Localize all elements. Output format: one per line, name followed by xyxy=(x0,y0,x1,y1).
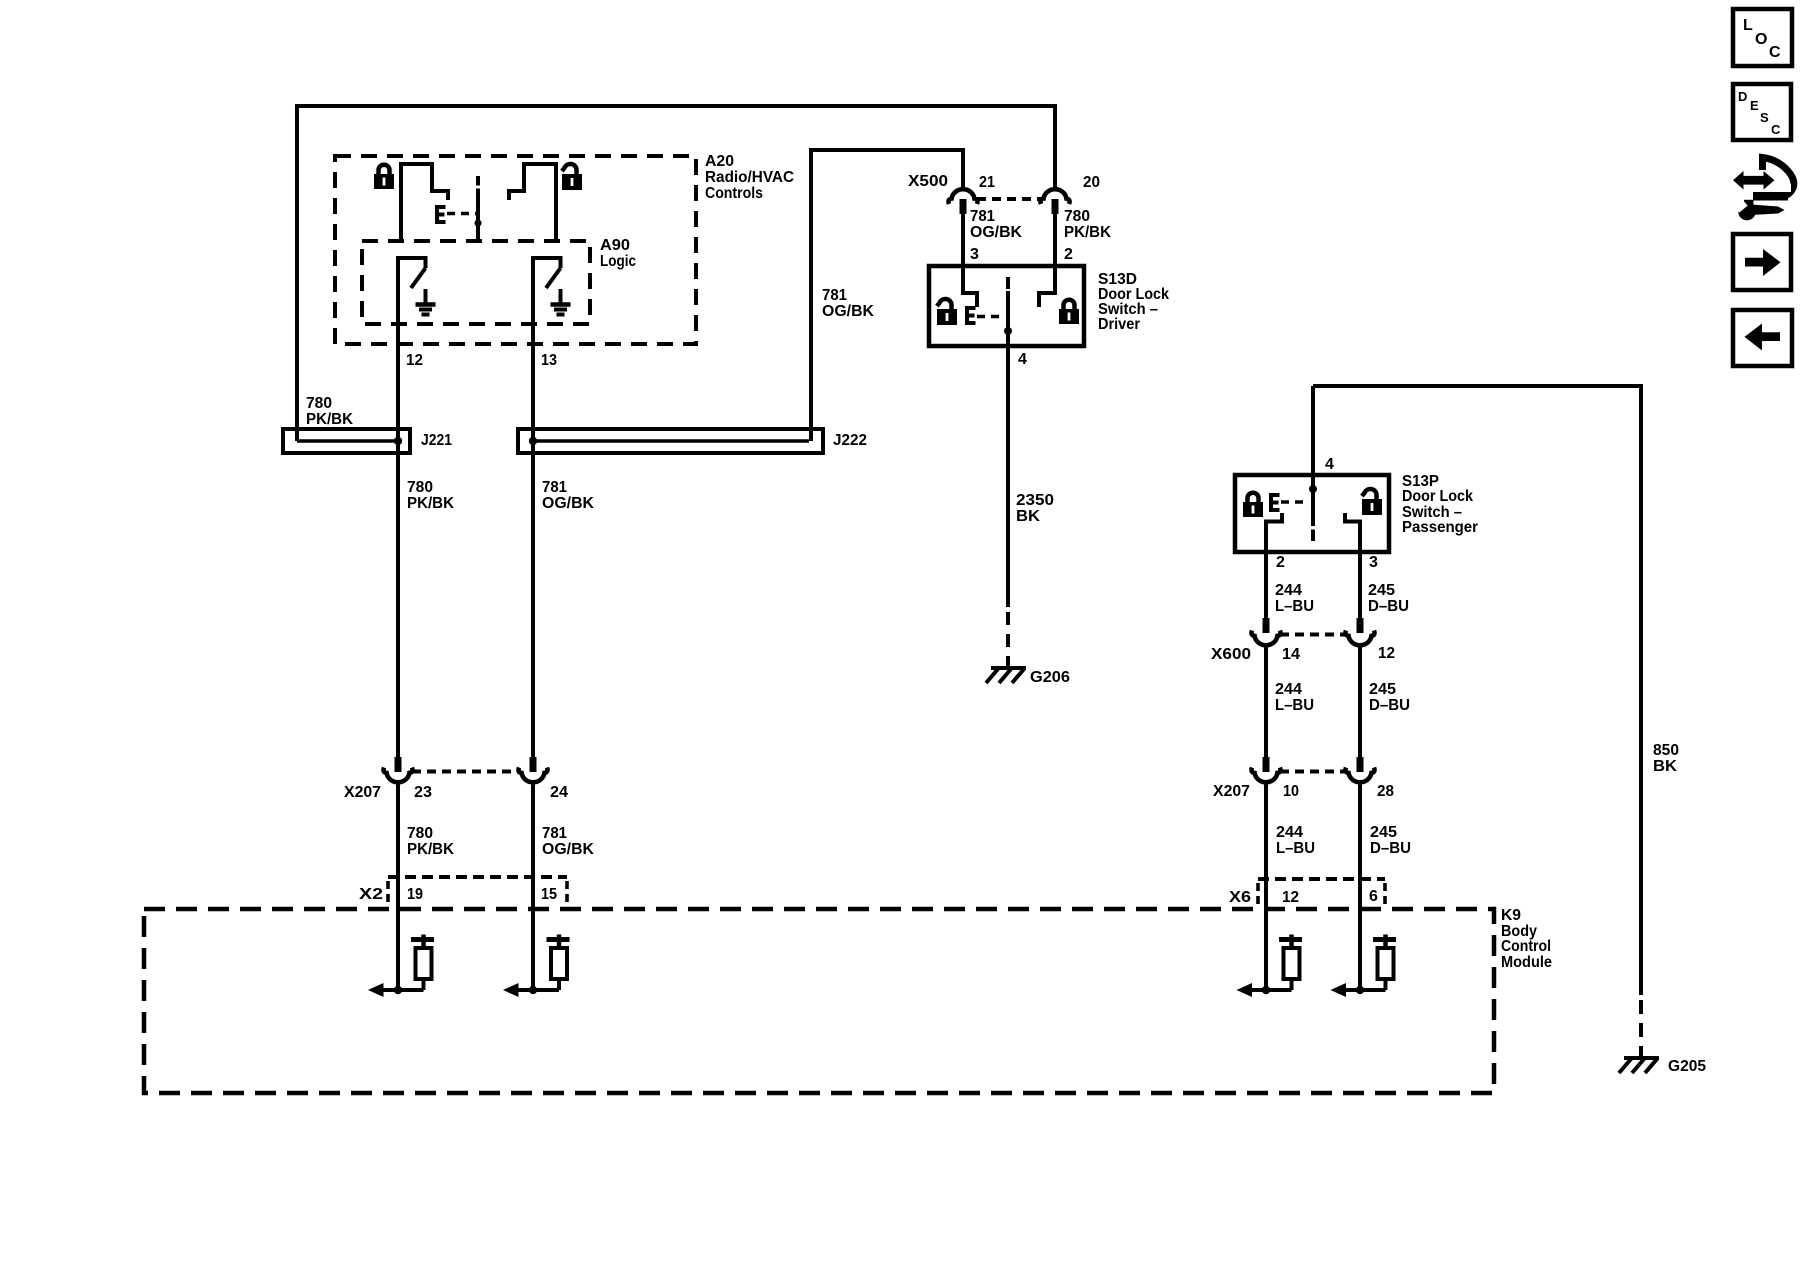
connector X207 cavity 23 xyxy=(383,757,412,782)
switch common link symbol E in S13D xyxy=(967,308,976,323)
svg-text:G206: G206 xyxy=(1030,669,1070,686)
svg-text:24: 24 xyxy=(550,784,568,801)
label wire 245 D-BU (above X600) xyxy=(1368,582,1409,615)
BCM input network for circuit 780 (resistor + signal arrow) xyxy=(368,935,434,998)
svg-text:Controls: Controls xyxy=(705,185,763,202)
svg-text:OG/BK: OG/BK xyxy=(970,224,1022,241)
svg-text:4: 4 xyxy=(1018,351,1027,368)
svg-text:780: 780 xyxy=(407,479,433,496)
svg-text:19: 19 xyxy=(407,886,423,903)
svg-text:12: 12 xyxy=(1282,889,1299,906)
label K9 Body Control Module xyxy=(1501,907,1552,971)
label S13P Door Lock Switch - Passenger xyxy=(1402,473,1478,536)
BCM input network for circuit 244 (resistor + signal arrow) xyxy=(1237,935,1303,998)
switch common link symbol E in S13P xyxy=(1271,495,1280,510)
device box K9 Body Control Module (dashed) xyxy=(144,909,1494,1093)
connector X600 cavity 12 xyxy=(1345,618,1374,645)
svg-text:C: C xyxy=(1771,122,1781,137)
label wire 245 D-BU (below X600) xyxy=(1369,681,1410,714)
wire 780 PK/BK top horizontal rail xyxy=(295,104,1057,108)
pin label 19 xyxy=(407,886,423,903)
wire 781 OG/BK vertical from J222 up to rail xyxy=(809,148,813,441)
connector X6 (dashed) xyxy=(1258,879,1385,907)
wire 2350 BK from S13D pin 4 xyxy=(1006,346,1010,607)
pin label 12 on X600 xyxy=(1378,645,1395,662)
svg-text:21: 21 xyxy=(979,174,995,191)
label J222 xyxy=(833,432,867,449)
label wire 780 PK/BK (below J221) xyxy=(407,479,454,512)
svg-text:PK/BK: PK/BK xyxy=(407,841,454,858)
svg-text:PK/BK: PK/BK xyxy=(407,495,454,512)
BCM input network for circuit 245 (resistor + signal arrow) xyxy=(1331,935,1397,998)
svg-text:X600: X600 xyxy=(1211,646,1251,663)
S13P pin 2 contact xyxy=(1266,513,1282,552)
wire 245 D-BU X207 to BCM xyxy=(1358,784,1362,990)
pin label 10 xyxy=(1283,783,1299,800)
svg-text:PK/BK: PK/BK xyxy=(1064,224,1111,241)
svg-text:J221: J221 xyxy=(421,432,452,449)
wire 781 OG/BK drop to X500 pin 21 xyxy=(961,148,965,189)
label wire 781 OG/BK (below X207) xyxy=(542,825,594,858)
wire 780 PK/BK pin 12 vertical (A90 to X207) xyxy=(396,258,400,758)
svg-text:A90: A90 xyxy=(600,237,630,254)
unlock contact staircase in A20 xyxy=(509,164,556,241)
svg-text:A20: A20 xyxy=(705,153,734,170)
label A90 Logic xyxy=(600,237,636,270)
label wire 780 PK/BK (below X207) xyxy=(407,825,454,858)
connector X2 (dashed) xyxy=(388,877,567,905)
svg-text:Module: Module xyxy=(1501,954,1552,971)
svg-text:Driver: Driver xyxy=(1098,316,1140,333)
wire 780 PK/BK X207 to BCM xyxy=(396,784,400,990)
wire 781 OG/BK X500 to S13D pin 3 xyxy=(961,214,965,268)
svg-text:850: 850 xyxy=(1653,742,1679,759)
connector X207 cavity 10 xyxy=(1251,757,1280,782)
svg-text:G205: G205 xyxy=(1668,1058,1706,1075)
svg-text:J222: J222 xyxy=(833,432,867,449)
icon closed padlock in S13D xyxy=(1059,300,1079,324)
svg-text:780: 780 xyxy=(306,395,332,412)
ground symbol in A90 (left) xyxy=(416,289,436,315)
svg-text:13: 13 xyxy=(541,352,557,369)
pin label 15 xyxy=(541,886,557,903)
svg-text:245: 245 xyxy=(1370,824,1397,841)
ground symbol in A90 (right) xyxy=(551,289,571,315)
pin label 2 on S13D xyxy=(1064,246,1073,263)
svg-text:3: 3 xyxy=(970,246,979,263)
pin label 12 on A20 xyxy=(406,352,423,369)
svg-text:OG/BK: OG/BK xyxy=(822,303,874,320)
S13P wiper solid from pin 4 xyxy=(1311,386,1315,526)
svg-text:245: 245 xyxy=(1368,582,1395,599)
svg-text:BK: BK xyxy=(1016,508,1040,525)
svg-text:D–BU: D–BU xyxy=(1368,598,1409,615)
label S13D Door Lock Switch - Driver xyxy=(1098,271,1169,333)
svg-text:Control: Control xyxy=(1501,938,1551,955)
connector X207 cavity 28 xyxy=(1345,757,1374,782)
S13D wiper pivot dot xyxy=(1004,327,1012,335)
wire 781 OG/BK pin 13 vertical (A90 to X207) xyxy=(531,258,535,758)
label A20 Radio/HVAC Controls xyxy=(705,153,794,202)
label X500 xyxy=(908,173,948,190)
svg-text:X207: X207 xyxy=(1213,783,1250,800)
svg-text:244: 244 xyxy=(1275,582,1302,599)
wire 781 OG/BK X207 to BCM xyxy=(531,784,535,990)
connector X207 dashed link (right) xyxy=(1280,770,1347,774)
svg-text:X207: X207 xyxy=(344,784,381,801)
A90 left switch contact xyxy=(396,258,426,268)
wiper pivot dot in A20 xyxy=(474,219,481,226)
label wire 781 OG/BK (below J222) xyxy=(542,479,594,512)
label wire 780 PK/BK (below X500-20) xyxy=(1064,208,1111,241)
label J221 xyxy=(421,432,452,449)
ground G206 xyxy=(986,668,1026,683)
device box A90 Logic (dashed) xyxy=(362,241,590,324)
pin label 3 on S13P xyxy=(1369,554,1378,571)
pin label 2 on S13P xyxy=(1276,554,1285,571)
svg-text:3: 3 xyxy=(1369,554,1378,571)
pin label 23 xyxy=(414,784,432,801)
connector X500 cavity 20 xyxy=(1040,189,1069,214)
svg-text:2350: 2350 xyxy=(1016,492,1054,509)
svg-text:15: 15 xyxy=(541,886,557,903)
mechanical link dashes in A20 xyxy=(447,212,476,216)
svg-text:Logic: Logic xyxy=(600,253,636,270)
label wire 244 L-BU (below X207) xyxy=(1276,824,1315,857)
svg-text:D: D xyxy=(1738,89,1747,104)
pin label 20 xyxy=(1083,174,1100,191)
svg-text:12: 12 xyxy=(1378,645,1395,662)
device box A20 Radio/HVAC Controls (dashed) xyxy=(335,156,696,344)
svg-text:C: C xyxy=(1769,44,1781,61)
label wire 244 L-BU (above X600) xyxy=(1275,582,1314,615)
S13D wiper (dashed top) xyxy=(1006,277,1010,289)
svg-text:X6: X6 xyxy=(1229,889,1251,906)
icon open padlock in S13P xyxy=(1362,489,1382,515)
connector X500 cavity 21 xyxy=(948,189,977,214)
mechanical link dashes in S13P xyxy=(1281,500,1308,504)
label wire 244 L-BU (below X600) xyxy=(1275,681,1314,714)
svg-text:244: 244 xyxy=(1276,824,1303,841)
svg-text:L: L xyxy=(1743,17,1753,34)
svg-text:6: 6 xyxy=(1369,888,1378,905)
splice J222 xyxy=(518,429,823,453)
svg-text:BK: BK xyxy=(1653,758,1677,775)
svg-text:781: 781 xyxy=(542,479,567,496)
connector X207 cavity 24 xyxy=(518,757,547,782)
svg-text:2: 2 xyxy=(1064,246,1073,263)
svg-text:12: 12 xyxy=(406,352,423,369)
A90 left switch blade xyxy=(411,268,426,288)
svg-text:L–BU: L–BU xyxy=(1275,598,1314,615)
icon button LOC xyxy=(1733,9,1792,66)
svg-text:S: S xyxy=(1760,110,1769,125)
svg-text:14: 14 xyxy=(1282,646,1300,663)
icon closed padlock (lock) in A20 xyxy=(374,165,394,189)
label X6 xyxy=(1229,889,1251,906)
svg-text:K9: K9 xyxy=(1501,907,1521,924)
svg-text:X2: X2 xyxy=(359,886,383,903)
label X207 (left) xyxy=(344,784,381,801)
device box S13D xyxy=(929,266,1084,346)
svg-text:780: 780 xyxy=(407,825,433,842)
wire 850 BK horizontal from S13P pin 4 xyxy=(1313,384,1643,388)
switch common link symbol E in A20 xyxy=(437,207,446,222)
svg-text:20: 20 xyxy=(1083,174,1100,191)
wire 850 BK dashed ground lead xyxy=(1639,1000,1643,1056)
svg-text:780: 780 xyxy=(1064,208,1090,225)
icon open padlock in S13D xyxy=(937,299,957,325)
svg-text:28: 28 xyxy=(1377,783,1394,800)
S13P wiper dashed tip xyxy=(1311,530,1315,542)
label wire 781 OG/BK (left rail) xyxy=(822,287,874,320)
svg-text:O: O xyxy=(1755,31,1767,48)
svg-text:L–BU: L–BU xyxy=(1276,840,1315,857)
icon button DESC xyxy=(1733,84,1791,140)
S13D wiper solid to pin 4 xyxy=(1006,291,1010,348)
connector X600 cavity 14 xyxy=(1251,618,1280,645)
label X2 xyxy=(359,886,383,903)
svg-text:OG/BK: OG/BK xyxy=(542,495,594,512)
pin label 24 xyxy=(550,784,568,801)
icon open padlock (unlock) in A20 xyxy=(562,164,582,190)
label X600 xyxy=(1211,646,1251,663)
svg-text:245: 245 xyxy=(1369,681,1396,698)
icon closed padlock in S13P xyxy=(1243,493,1263,517)
svg-text:781: 781 xyxy=(822,287,847,304)
label G206 xyxy=(1030,669,1070,686)
svg-text:D–BU: D–BU xyxy=(1370,840,1411,857)
wire 245 D-BU S13P to X600 xyxy=(1358,552,1362,619)
wire 780 PK/BK vertical from top rail down to J221 splice xyxy=(295,104,299,441)
pin label 21 xyxy=(979,174,995,191)
label wire 850 BK xyxy=(1653,742,1679,775)
wire 2350 BK dashed ground lead xyxy=(1006,612,1010,666)
svg-text:E: E xyxy=(1750,98,1759,113)
svg-text:781: 781 xyxy=(542,825,567,842)
splice J221 xyxy=(283,429,410,453)
label wire 781 OG/BK (below X500-21) xyxy=(970,208,1022,241)
icon button back (left arrow) xyxy=(1733,310,1792,366)
svg-text:Radio/HVAC: Radio/HVAC xyxy=(705,169,794,186)
icon jump-to with wrench xyxy=(1733,158,1794,221)
label wire 2350 BK xyxy=(1016,492,1054,525)
svg-text:2: 2 xyxy=(1276,554,1285,571)
device box S13P xyxy=(1235,475,1389,552)
icon button next (right arrow) xyxy=(1733,234,1791,290)
pin label 4 on S13P xyxy=(1325,456,1334,473)
A90 right switch contact xyxy=(531,258,561,268)
S13P wiper pivot dot xyxy=(1309,485,1317,493)
ground G205 xyxy=(1619,1058,1659,1073)
svg-text:PK/BK: PK/BK xyxy=(306,411,353,428)
label wire 780 PK/BK (top left) xyxy=(306,395,353,428)
pin label 6 on X6 xyxy=(1369,888,1378,905)
mechanical link dashes in S13D xyxy=(977,315,1004,319)
pin label 13 on A20 xyxy=(541,352,557,369)
pin label 3 on S13D xyxy=(970,246,979,263)
label G205 xyxy=(1668,1058,1706,1075)
pin label 14 xyxy=(1282,646,1300,663)
wire 780 PK/BK drop to X500 pin 20 xyxy=(1053,104,1057,189)
label wire 245 D-BU (below X207) xyxy=(1370,824,1411,857)
wire 244 L-BU S13P to X600 xyxy=(1264,552,1268,619)
wire 244 L-BU X600 to X207 xyxy=(1264,647,1268,758)
wire 780 PK/BK X500 to S13D pin 2 xyxy=(1053,214,1057,268)
svg-text:244: 244 xyxy=(1275,681,1302,698)
svg-text:10: 10 xyxy=(1283,783,1299,800)
S13P pin 3 contact xyxy=(1345,513,1360,552)
wire 244 L-BU X207 to BCM xyxy=(1264,784,1268,990)
svg-text:Door Lock: Door Lock xyxy=(1402,488,1473,505)
connector X207 dashed link (left) xyxy=(412,770,519,774)
wire 850 BK vertical to G205 xyxy=(1639,384,1643,995)
svg-text:OG/BK: OG/BK xyxy=(542,841,594,858)
svg-text:X500: X500 xyxy=(908,173,948,190)
pin label 4 on S13D xyxy=(1018,351,1027,368)
svg-text:23: 23 xyxy=(414,784,432,801)
switch wiper (dashed) in A20 xyxy=(476,176,480,240)
connector X600 dashed link xyxy=(1280,633,1347,637)
connector X500 dashed link xyxy=(977,197,1041,201)
svg-text:4: 4 xyxy=(1325,456,1334,473)
S13D pin 2 contact xyxy=(1039,266,1055,307)
label X207 (right) xyxy=(1213,783,1250,800)
A90 right switch blade xyxy=(546,268,561,288)
wire 781 OG/BK horizontal rail to X500 pin 21 xyxy=(809,148,965,152)
S13D pin 3 contact xyxy=(963,266,977,307)
BCM input network for circuit 781 (resistor + signal arrow) xyxy=(503,935,570,998)
svg-text:Passenger: Passenger xyxy=(1402,519,1478,536)
svg-text:L–BU: L–BU xyxy=(1275,697,1314,714)
svg-text:781: 781 xyxy=(970,208,995,225)
lock contact staircase in A20 xyxy=(401,164,448,241)
wire 245 D-BU X600 to X207 xyxy=(1358,647,1362,758)
svg-text:D–BU: D–BU xyxy=(1369,697,1410,714)
pin label 28 xyxy=(1377,783,1394,800)
pin label 12 on X6 xyxy=(1282,889,1299,906)
